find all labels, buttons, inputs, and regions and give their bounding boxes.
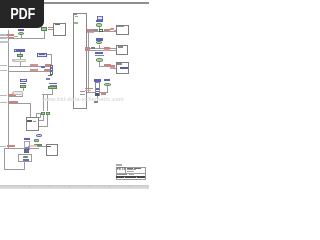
wire ground return xyxy=(4,168,25,171)
pin stub U3 xyxy=(113,67,116,70)
connector stub box xyxy=(36,113,41,118)
net label N1 (blue, under badge) xyxy=(18,29,24,32)
wire TP5 drop xyxy=(106,86,109,92)
wire mid row 2 xyxy=(8,70,51,73)
battery BT1 label (blue) xyxy=(24,138,29,141)
wire battery row xyxy=(4,147,39,150)
module block D (charger) xyxy=(26,117,40,131)
value text red row (left) xyxy=(87,29,94,31)
wire B to block D xyxy=(46,115,49,126)
test point TP10 (green) xyxy=(34,139,40,142)
wire TP5 link xyxy=(100,91,108,94)
net label N6 (blue boxed) xyxy=(104,79,110,82)
net mark (blue in loop) xyxy=(23,159,28,161)
value text red row2 xyxy=(87,32,94,34)
wire stub xyxy=(14,35,18,38)
N8 text (blue) xyxy=(20,83,26,85)
wire A to block D xyxy=(42,115,45,121)
value red right of Q1 xyxy=(101,93,106,95)
wire F3 drop xyxy=(51,89,54,94)
test point TP7 (green dash) xyxy=(48,75,52,77)
wire battery to block E xyxy=(28,145,46,148)
wire to U3 xyxy=(99,65,115,68)
watermark xyxy=(42,97,137,103)
value red left of U3 xyxy=(110,65,115,67)
wire loop bottom xyxy=(18,160,32,163)
value red left of U1 xyxy=(110,28,114,30)
test point TP9 (green ellipse on wire B) xyxy=(46,112,50,115)
refdes text in P2 xyxy=(55,24,61,26)
refdes in U3 xyxy=(117,63,122,65)
bottom strip bar xyxy=(0,185,149,189)
resistor R1 (vertical) xyxy=(50,65,53,74)
wire TP2 drop xyxy=(98,27,101,31)
title black bar xyxy=(116,176,145,178)
Q1 inner dash 1 (blue) xyxy=(96,88,99,89)
wire lower row 1 xyxy=(8,95,23,98)
fuse F2 (green) xyxy=(20,85,26,88)
value red right r1 xyxy=(104,47,110,49)
value text red (right) xyxy=(104,29,111,31)
battery BT1 body xyxy=(24,141,29,150)
title mid text xyxy=(117,174,127,175)
pin mark green 1 xyxy=(75,16,78,18)
pin dashes grey in J1 xyxy=(80,91,85,92)
net tag (blue) on wire row1 xyxy=(41,66,45,68)
red hint in grey label xyxy=(12,59,14,61)
connector block P2 (8-pin) xyxy=(53,23,66,36)
test point TP5 (green ellipse) xyxy=(104,83,111,86)
net text big (blue) row1 xyxy=(49,83,57,85)
test point TP8 (green ellipse on wire A) xyxy=(41,112,45,115)
IC block U3 (right lower) xyxy=(116,62,130,74)
logo text xyxy=(117,168,125,171)
logo cell divider xyxy=(124,167,127,174)
test point TP11 (green) xyxy=(34,144,40,147)
wire net row under badge xyxy=(8,37,44,40)
sheet top border xyxy=(0,2,149,4)
wire horiz to stub box xyxy=(30,116,37,119)
wire ground drop xyxy=(3,148,6,169)
wire F3 row xyxy=(42,93,54,96)
title block frame xyxy=(116,167,146,181)
component D1 (dark green) xyxy=(99,29,104,33)
inline component F0 (green block) xyxy=(41,27,47,31)
wire loop left xyxy=(17,154,20,162)
wire top net row xyxy=(87,30,117,33)
test point TP6 (green ellipse small) xyxy=(94,101,98,104)
net label N9 (blue boxed, center) xyxy=(37,53,46,57)
red hint 2 xyxy=(12,92,14,94)
wire Q1 drop xyxy=(96,96,99,101)
net label N7 (blue boxed, left mid) xyxy=(14,49,25,52)
diode D2 (vertical dark) xyxy=(24,149,29,154)
wire loop to ground xyxy=(23,162,26,169)
refdes mark in J1 xyxy=(74,13,77,16)
wire loop top xyxy=(18,153,32,156)
wire drop to R1 xyxy=(50,54,53,66)
fuse F3 (green) xyxy=(48,86,57,89)
net label N2 (blue boxed, top center) xyxy=(97,16,103,19)
net text big (blue) row2 xyxy=(50,85,57,86)
wire junction row xyxy=(87,91,95,94)
N7 inner dark text xyxy=(16,50,25,51)
value red left r1 xyxy=(85,47,90,49)
IC block U2 (right mid) xyxy=(116,45,128,56)
net name margin text rows (grey) xyxy=(0,34,7,36)
pink net highlight xyxy=(30,145,37,148)
value dark mid r1 xyxy=(91,47,96,49)
fuse F1 (green) xyxy=(17,54,23,57)
wire drop B xyxy=(46,94,49,112)
test point TP2 (green ellipse) xyxy=(96,23,101,27)
net bubble (blue ellipse) xyxy=(36,134,42,137)
net label N3 (blue) xyxy=(96,38,104,40)
value text (red) at F0 xyxy=(48,27,53,29)
wire N9 link xyxy=(47,53,52,56)
pin mark green 2 xyxy=(74,22,78,24)
net text N4b xyxy=(95,55,103,57)
value red at J1 edge xyxy=(85,88,92,90)
wire loop right xyxy=(30,154,33,162)
component Q1 (outlined, mid lower) xyxy=(95,82,101,96)
Q1 dark base xyxy=(95,93,99,95)
refdes in U2 xyxy=(118,46,123,48)
bus mark in U3 (blue) xyxy=(120,67,128,69)
wire F0 drop xyxy=(43,31,46,38)
wire bus row 1 xyxy=(87,47,117,50)
wire TP1 drop xyxy=(20,35,23,38)
battery BT1 base (blue) xyxy=(25,147,30,150)
value red right r2 xyxy=(104,49,110,51)
Q1 inner dash 2 (blue) xyxy=(96,91,99,92)
value text dark (mid) xyxy=(94,29,98,31)
wire TP4 drop xyxy=(98,62,101,67)
title divider row xyxy=(116,172,146,175)
net text small (blue) xyxy=(46,78,51,80)
value red at U3 wire xyxy=(104,64,110,66)
test point TP4 (green wide ellipse) xyxy=(96,58,104,61)
test point TP1 (green ellipse) xyxy=(18,32,24,35)
net label N4 (blue boxed) xyxy=(95,52,103,55)
net label N5 (blue boxed) xyxy=(94,79,102,82)
value red left r2 xyxy=(85,49,90,51)
title bottom row text xyxy=(117,179,126,180)
refdes in E xyxy=(47,146,51,148)
wire vertical junction drop xyxy=(87,31,90,92)
wire F2 drops xyxy=(22,88,25,91)
pdf badge xyxy=(0,0,44,28)
test point TP12 (green in loop) xyxy=(23,156,28,159)
net label red texts xyxy=(7,34,14,36)
wire lower row 2 xyxy=(8,102,30,105)
strip ticks xyxy=(29,186,30,187)
wire drop to connector stub xyxy=(29,103,32,118)
wire F1 drops xyxy=(19,52,22,54)
highlight label 2 (grey rounded) xyxy=(13,91,23,95)
wire left bus vertical xyxy=(7,30,10,149)
title rows right xyxy=(127,168,133,169)
R1 inner dashes xyxy=(51,67,53,68)
wire TP3 drop xyxy=(98,45,101,49)
highlight label (grey rounded) xyxy=(12,59,26,63)
net text N2b (blue) xyxy=(96,20,103,22)
connector J1 (tall block) xyxy=(73,13,87,109)
wire mid row 1 xyxy=(8,65,51,68)
inline component F4 (green) xyxy=(38,144,42,146)
IC block U1 (right top) xyxy=(116,25,129,36)
N9 inner text xyxy=(39,54,46,55)
pdf badge text xyxy=(6,1,40,29)
test point TP3 (green ellipse) xyxy=(96,41,102,44)
refdes in D xyxy=(27,120,32,122)
wire drop A xyxy=(42,94,45,112)
wire bus row 2 xyxy=(87,49,117,52)
module block E xyxy=(46,144,59,155)
title block tab xyxy=(116,164,122,166)
refdes in U1 xyxy=(117,26,124,27)
net label N8 (blue boxed, left lower) xyxy=(20,79,27,82)
pin stub U1 xyxy=(114,29,116,32)
